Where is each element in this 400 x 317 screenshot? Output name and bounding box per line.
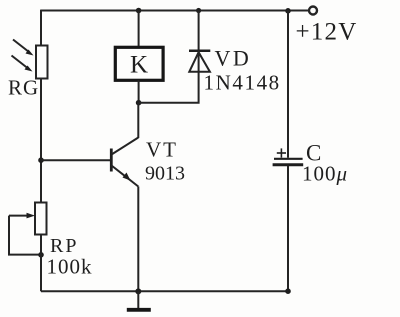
wire wiper return left bbox=[9, 216, 41, 255]
node emitter/bottom junction bbox=[135, 288, 141, 294]
potentiometer RP wiper arrow bbox=[9, 213, 35, 219]
terminal +12V supply bbox=[309, 7, 317, 15]
transistor VT collector stroke bbox=[112, 138, 139, 155]
wire top rail to capacitor bbox=[287, 11, 289, 158]
wire junction to diode anode bbox=[139, 71, 199, 103]
potentiometer RP body bbox=[35, 203, 47, 235]
node junction top rail / diode VD bbox=[196, 8, 201, 13]
wire left branch upper (rail to RG) bbox=[40, 10, 42, 46]
node bottom-right corner junction bbox=[285, 288, 291, 294]
svg-text:100k: 100k bbox=[47, 255, 93, 279]
svg-text:100μ: 100μ bbox=[302, 162, 348, 186]
wire relay K to junction bbox=[138, 80, 140, 102]
wire top rail to relay K bbox=[138, 11, 140, 48]
diode VD triangle bbox=[189, 52, 210, 72]
transistor VT emitter stroke with arrow bbox=[112, 166, 139, 187]
node junction below K bbox=[136, 100, 142, 106]
capacitor C bottom plate bbox=[273, 163, 304, 166]
svg-text:RG: RG bbox=[8, 76, 39, 100]
ground bbox=[127, 291, 151, 309]
wire RP to bottom rail bbox=[40, 235, 42, 292]
svg-text:VT: VT bbox=[146, 138, 178, 162]
wire emitter vertical bbox=[137, 187, 139, 292]
node wiper return junction bbox=[38, 252, 44, 258]
wire bottom rail bbox=[41, 290, 288, 292]
capacitor C plus polarity mark bbox=[277, 148, 286, 157]
node junction top rail / relay K bbox=[136, 8, 142, 14]
wire top rail bbox=[41, 10, 309, 12]
wire collector vertical bbox=[137, 103, 139, 138]
transistor VT base bar bbox=[110, 149, 113, 172]
wire base bbox=[41, 159, 111, 161]
light arrow 2 bbox=[12, 56, 33, 72]
wire top rail to diode cathode bbox=[198, 11, 200, 73]
relay K coil box bbox=[115, 47, 163, 80]
diode VD cathode bar bbox=[189, 50, 210, 53]
svg-text:VD: VD bbox=[215, 46, 252, 71]
svg-text:+12V: +12V bbox=[296, 19, 358, 46]
node base junction bbox=[38, 157, 44, 163]
capacitor C top plate bbox=[274, 158, 303, 160]
light arrow 1 bbox=[13, 40, 34, 56]
node junction top rail / capacitor C bbox=[285, 8, 291, 14]
wire capacitor to bottom rail bbox=[287, 166, 289, 291]
svg-text:1N4148: 1N4148 bbox=[204, 71, 281, 95]
svg-text:K: K bbox=[130, 52, 148, 79]
photoresistor RG body bbox=[36, 46, 48, 79]
wire left branch middle (RG to RP) bbox=[40, 79, 42, 204]
svg-text:9013: 9013 bbox=[145, 163, 185, 185]
